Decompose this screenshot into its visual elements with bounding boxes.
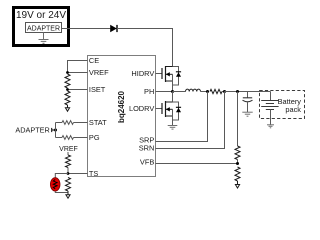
ground (below battery) <box>267 125 274 128</box>
wire SRN sense <box>156 92 225 149</box>
svg-text:ISET: ISET <box>89 85 106 94</box>
Q1 source to PH wire <box>172 74 174 91</box>
node ISET junction <box>66 88 69 91</box>
svg-text:bq24620: bq24620 <box>117 90 126 123</box>
svg-text:ADAPTER: ADAPTER <box>27 25 60 32</box>
svg-text:19V or 24V: 19V or 24V <box>16 10 66 21</box>
svg-text:VREF: VREF <box>59 146 78 153</box>
Q2 source down wire <box>172 109 174 125</box>
svg-text:PG: PG <box>89 133 100 142</box>
ground (power, below Q2) <box>168 126 178 130</box>
resistor RSR (current sense) <box>210 89 225 93</box>
node VFB junction <box>236 162 239 165</box>
wire thermistor bottom <box>55 191 68 192</box>
node PH junction <box>171 90 174 93</box>
Q2 body diode <box>173 102 182 120</box>
wire rail SRN to battery <box>225 91 271 93</box>
transistor Q1 (high side) <box>162 66 166 82</box>
node VREF junction <box>66 71 69 74</box>
wire ISET <box>68 89 88 91</box>
ground (below C1) <box>242 112 252 116</box>
ADAPTER output box <box>26 23 62 33</box>
ground (signal, below R6) <box>235 181 239 188</box>
ground (signal, below R4) <box>66 191 70 198</box>
svg-text:TS: TS <box>89 169 99 178</box>
node VFB divider top junction <box>236 90 239 93</box>
node ADAPTER junction <box>54 129 57 132</box>
inductor L1 <box>173 89 208 91</box>
Q1 body diode <box>173 67 182 86</box>
wire TS to thermistor <box>55 174 68 178</box>
resistor R1 (VREF-ISET) <box>65 74 70 88</box>
transistor Q2 (low side) <box>162 101 166 117</box>
wire CE to VREF tie <box>68 61 88 73</box>
wire VREF <box>68 72 88 74</box>
ADAPTER port marker <box>52 128 56 132</box>
wire adapter output to diode <box>62 28 111 30</box>
resistor R5 (VFB top) <box>235 92 240 164</box>
resistor R6 (VFB bottom) <box>235 167 240 181</box>
svg-text:CE: CE <box>89 56 99 65</box>
wire ADAPTER vertical <box>55 123 57 138</box>
wire SRP sense <box>156 92 208 142</box>
resistor R3 (VREF-TS) <box>66 152 71 174</box>
wire VFB <box>156 163 238 165</box>
svg-text:HIDRV: HIDRV <box>131 69 154 78</box>
thermistor RT (red) <box>50 178 60 191</box>
wire TS <box>68 173 88 175</box>
wire diode to input node <box>117 29 173 67</box>
op-amp U1 bq24620 IC body <box>88 56 156 177</box>
resistor R7 (STAT pull-up) <box>56 121 88 125</box>
node TS junction <box>67 172 70 175</box>
wire HIDRV gate <box>156 73 163 75</box>
svg-text:PH: PH <box>144 87 154 96</box>
Q2 drain to PH wire <box>172 92 174 103</box>
wire PH <box>156 91 173 93</box>
adapter box <box>14 8 69 46</box>
resistor R4 (TS-GND) <box>66 178 71 192</box>
diode D1 <box>110 25 117 33</box>
battery pack dashed box <box>260 91 305 119</box>
ground (adapter internal) <box>39 33 49 44</box>
svg-text:pack: pack <box>285 105 301 114</box>
battery BT1 <box>261 92 278 125</box>
capacitor C1 <box>243 92 253 113</box>
node SRN junction <box>223 90 226 93</box>
svg-text:VFB: VFB <box>140 158 154 167</box>
resistor R2 (ISET-GND) <box>65 91 70 105</box>
wire LODRV gate <box>156 108 163 110</box>
svg-text:ADAPTER: ADAPTER <box>15 126 49 135</box>
node SRP junction <box>206 90 209 93</box>
svg-text:SRN: SRN <box>139 143 155 152</box>
svg-text:STAT: STAT <box>89 118 107 127</box>
ground (signal, below R2) <box>65 105 69 111</box>
resistor R8 (PG pull-up) <box>56 136 88 140</box>
svg-text:VREF: VREF <box>89 68 109 77</box>
svg-text:LODRV: LODRV <box>129 104 154 113</box>
